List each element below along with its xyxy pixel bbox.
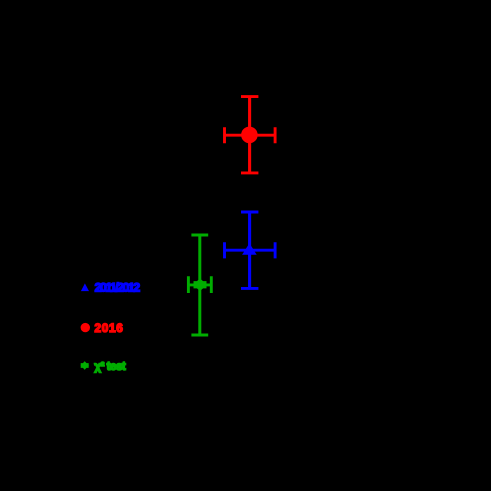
svg-text:χ² test: χ² test: [94, 360, 126, 373]
svg-text:2016: 2016: [95, 321, 124, 335]
red data marker (filled circle): [241, 127, 258, 144]
legend entry 3 marker (green star): [81, 361, 89, 370]
green vertical error bar with caps: [198, 235, 201, 335]
blue horizontal error bar with caps: [225, 242, 276, 258]
legend entry 1 marker (blue triangle): [81, 283, 89, 291]
blue vertical error bar with caps: [248, 212, 251, 288]
green horizontal error bar with caps: [188, 276, 211, 293]
svg-text:2011/2012: 2011/2012: [95, 281, 141, 295]
legend entry 2 marker (red circle): [81, 323, 90, 332]
red horizontal error bar with caps: [225, 127, 276, 143]
blue data marker (filled triangle): [242, 243, 257, 254]
green data marker (filled star/hexagram): [194, 279, 207, 292]
red vertical error bar with caps: [248, 97, 251, 173]
